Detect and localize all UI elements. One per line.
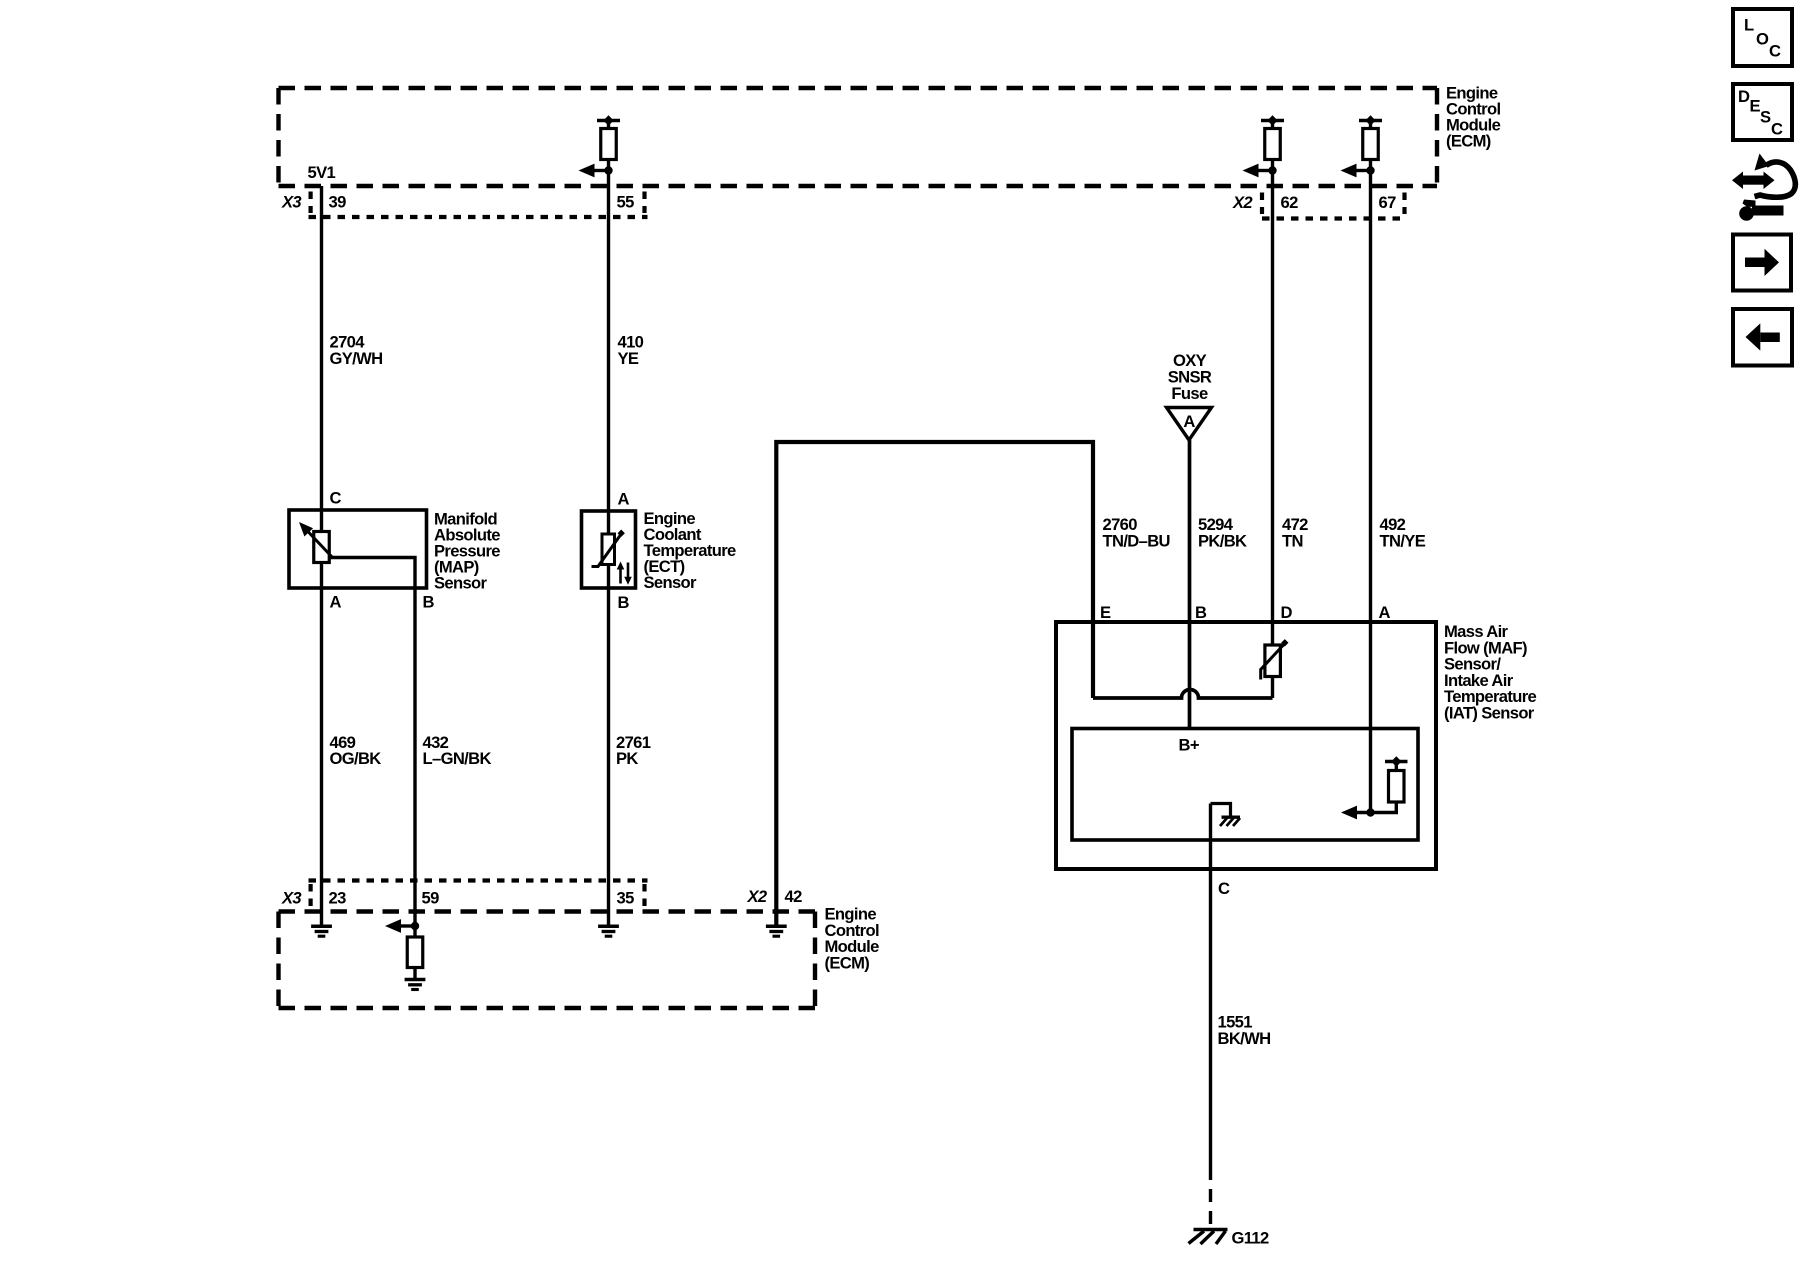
wire 469 OG/BK (MAP A to ECM X3-23)	[320, 588, 323, 926]
off-page arrow at pin 67 resistor	[1341, 164, 1371, 178]
wire 5294 PK/BK (OXY SNSR fuse to MAF B)	[1188, 440, 1192, 729]
power symbol above ECM resistor pin 62	[1261, 115, 1284, 130]
svg-text:A: A	[618, 490, 630, 509]
wire MAP pin A internal	[320, 563, 323, 589]
svg-text:Fuse: Fuse	[1171, 384, 1208, 403]
svg-text:E: E	[1750, 97, 1761, 116]
svg-text:S: S	[1760, 108, 1771, 127]
svg-text:B+: B+	[1179, 736, 1200, 755]
ECT sensor label	[644, 509, 737, 592]
back arrow navigation box	[1733, 309, 1792, 366]
fuse symbol triangle (OXY SNSR Fuse, terminal A)	[1167, 408, 1212, 441]
thermistor (ECT element)	[592, 530, 625, 567]
svg-text:B: B	[618, 593, 630, 612]
power symbol above ECM resistor pin 67	[1359, 115, 1382, 130]
svg-text:A: A	[1183, 412, 1195, 431]
wire resistor to ground (pin 59)	[413, 968, 416, 979]
ground symbol (ECM pin 59 resistor)	[405, 980, 426, 990]
wire MAF internal E to D (with hop over B)	[1093, 690, 1273, 699]
MAP sensor label	[434, 510, 500, 593]
power symbol (MAF internal resistor top)	[1385, 756, 1408, 772]
junction dot pin 59 arrow	[411, 922, 419, 930]
svg-text:Sensor: Sensor	[644, 573, 698, 592]
MAP sensor box	[289, 510, 427, 588]
resistor (ECM internal pin 59 circuit)	[407, 937, 423, 968]
label wire 492 TN/YE	[1380, 515, 1426, 551]
MAF/IAT sensor label	[1444, 622, 1537, 723]
svg-text:D: D	[1738, 87, 1750, 106]
connector X3 (top) dotted box	[309, 192, 648, 218]
label wire 469 OG/BK	[330, 733, 382, 768]
junction dot (MAF pin A wire)	[1366, 808, 1374, 816]
svg-text:(IAT) Sensor: (IAT) Sensor	[1444, 704, 1535, 723]
svg-text:C: C	[1771, 120, 1783, 139]
label wire 2760 TN/D-BU	[1103, 515, 1170, 551]
wire ECT pin A internal	[607, 511, 610, 534]
ground G112 chassis symbol	[1189, 1230, 1228, 1245]
label wire 1551 BK/WH	[1218, 1013, 1271, 1049]
svg-text:X2: X2	[1232, 193, 1253, 212]
connector X2 (top) dotted box	[1262, 193, 1405, 219]
svg-text:A: A	[330, 593, 342, 612]
svg-text:D: D	[1281, 603, 1293, 622]
ECM top dashed box (Engine Control Module)	[279, 88, 1438, 186]
resistor (ECM internal, pin 62 circuit)	[1265, 129, 1281, 160]
off-page arrow at pin 62 resistor	[1243, 164, 1273, 178]
wire 410 YE (ECM X3-55 to ECT A)	[607, 160, 610, 512]
MAF inner module box	[1072, 729, 1418, 841]
wire 2760 TN/D-BU (ECM X2-42 to MAF E, thick bus)	[776, 442, 1093, 925]
svg-text:E: E	[1100, 603, 1111, 622]
wire 432 L-GN/BK (MAP B to ECM X3-59)	[413, 588, 416, 937]
svg-text:BK/WH: BK/WH	[1218, 1029, 1271, 1048]
svg-text:PK: PK	[616, 749, 638, 768]
wire 1551 dashed segment to G112	[1209, 1167, 1212, 1228]
svg-text:62: 62	[1281, 193, 1299, 212]
wire 62 472 TN (ECM X2-62 to MAF D)	[1271, 160, 1274, 647]
label wire 432 L-GN/BK	[423, 733, 492, 768]
ground symbol (ECM pin 42)	[766, 926, 787, 936]
svg-text:TN/D–BU: TN/D–BU	[1103, 532, 1170, 551]
svg-text:(ECM): (ECM)	[1446, 132, 1491, 151]
svg-text:(ECM): (ECM)	[825, 953, 870, 972]
svg-text:TN/YE: TN/YE	[1380, 532, 1426, 551]
svg-text:A: A	[1379, 603, 1391, 622]
svg-text:X2: X2	[747, 887, 768, 906]
off-page arrow at pin 55 resistor	[579, 164, 609, 178]
variable resistor arrow (MAP)	[299, 522, 333, 558]
OXY SNSR Fuse label	[1168, 351, 1212, 403]
forward arrow navigation box	[1733, 235, 1791, 291]
thermistor temperature arrows (ECT)	[617, 562, 632, 585]
chassis ground symbol (MAF internal)	[1220, 817, 1240, 826]
svg-text:23: 23	[329, 889, 347, 908]
wire MAP pin C internal	[320, 510, 323, 532]
wire MAP tap to pin B internal	[329, 558, 415, 589]
wire 2761 PK (ECT B to ECM X3-35)	[607, 588, 610, 926]
svg-text:39: 39	[329, 193, 347, 212]
label wire 2704 GY/WH	[330, 333, 383, 369]
wire 2704 GY/WH (ECM X3-39 to MAP C)	[320, 186, 323, 510]
wire ECT pin B internal	[607, 565, 610, 589]
svg-text:C: C	[330, 489, 342, 508]
svg-text:YE: YE	[618, 349, 639, 368]
svg-text:G112: G112	[1232, 1229, 1269, 1248]
resistor (MAF internal)	[1389, 771, 1405, 803]
label wire 2761 PK	[616, 733, 651, 768]
svg-text:L: L	[1744, 16, 1754, 35]
MAF/IAT sensor outer box	[1056, 622, 1436, 869]
variable resistor (MAP element)	[314, 532, 330, 563]
svg-text:C: C	[1769, 42, 1781, 61]
power symbol (B+ bar with diamond) above ECM resistor pin 55	[597, 115, 620, 130]
off-page arrow at pin 59	[385, 919, 415, 933]
thermistor (IAT element on pin D)	[1261, 639, 1289, 679]
svg-text:55: 55	[617, 193, 635, 212]
wire 1551 BK/WH (MAF C to G112)	[1209, 804, 1212, 1168]
label wire 410 YE	[618, 333, 644, 369]
svg-text:X3: X3	[281, 193, 302, 212]
wire MAF internal resistor to junction	[1356, 802, 1396, 813]
junction dot pin 62 arrow	[1268, 166, 1276, 174]
shortcut icon (double arrow, loop arrow, wrench)	[1732, 154, 1795, 221]
ECM bottom label	[825, 905, 880, 973]
svg-text:B: B	[1195, 603, 1207, 622]
svg-text:Sensor: Sensor	[434, 574, 488, 593]
svg-text:35: 35	[617, 889, 635, 908]
svg-text:59: 59	[422, 889, 440, 908]
resistor (ECM internal, pin 67 circuit)	[1363, 129, 1379, 160]
ground symbol (ECM pin 23)	[311, 926, 332, 936]
connector X3 (bottom) dotted box	[309, 881, 648, 909]
svg-text:5V1: 5V1	[308, 163, 336, 182]
svg-text:GY/WH: GY/WH	[330, 349, 383, 368]
svg-text:PK/BK: PK/BK	[1198, 532, 1247, 551]
label wire 5294 PK/BK	[1198, 515, 1247, 551]
DESC navigation box	[1733, 84, 1792, 140]
ground symbol (ECM pin 35)	[598, 926, 619, 936]
junction dot pin 55 arrow	[604, 166, 612, 174]
svg-text:OG/BK: OG/BK	[330, 749, 382, 768]
off-page arrow (MAF internal)	[1341, 806, 1357, 820]
ECT sensor box	[582, 511, 636, 588]
ECM bottom dashed box (Engine Control Module)	[279, 912, 816, 1009]
junction dot pin 67 arrow	[1366, 166, 1374, 174]
ECM top label	[1446, 84, 1501, 151]
svg-text:B: B	[423, 593, 435, 612]
label wire 472 TN	[1282, 515, 1308, 551]
wire 67 492 TN/YE (ECM X2-67 to MAF A)	[1369, 160, 1372, 813]
svg-text:L–GN/BK: L–GN/BK	[423, 749, 492, 768]
wire MAF internal D lower segment	[1271, 677, 1274, 699]
wire MAF internal chassis ground branch	[1211, 804, 1231, 817]
resistor (ECM internal, pin 55 circuit)	[601, 129, 617, 160]
svg-text:TN: TN	[1282, 532, 1303, 551]
svg-text:O: O	[1756, 30, 1769, 49]
LOC navigation box	[1733, 9, 1792, 66]
svg-text:X3: X3	[281, 889, 302, 908]
svg-text:67: 67	[1379, 193, 1397, 212]
svg-text:42: 42	[785, 887, 803, 906]
svg-text:C: C	[1218, 879, 1230, 898]
